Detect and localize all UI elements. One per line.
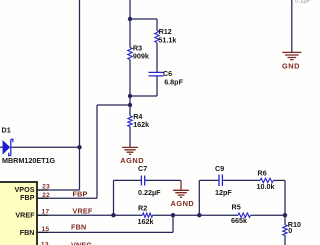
wire branch top horizontal (130, 18, 157, 20)
wire FBP vertical (96, 105, 98, 198)
wire R2 to FBN tap (153, 214, 239, 216)
svg-text:6.8pF: 6.8pF (164, 77, 183, 86)
svg-text:VREF: VREF (73, 206, 93, 215)
svg-text:51.1k: 51.1k (158, 35, 176, 44)
wire C7 left lead (114, 179, 142, 181)
svg-text:AGND: AGND (171, 199, 195, 208)
wire R6 to right corner (273, 179, 285, 181)
wire VREF pin to R2 (37, 214, 143, 216)
svg-text:VNEG: VNEG (71, 240, 92, 245)
svg-text:VREF: VREF (15, 211, 35, 220)
svg-text:10.0k: 10.0k (257, 182, 275, 191)
svg-text:0.22µF: 0.22µF (138, 188, 161, 197)
node junction C7 tap (111, 213, 115, 217)
wire D1 cathode to junction (11, 146, 79, 148)
wire C7 right lead to AGND (145, 179, 181, 181)
svg-text:FBP: FBP (20, 193, 35, 202)
resistor R4 (128, 116, 132, 127)
svg-text:162k: 162k (138, 217, 154, 226)
wire R4 to AGND (129, 126, 131, 146)
svg-text:23: 23 (42, 183, 50, 190)
node junction C9 tap (197, 213, 201, 217)
chip U? body (0, 182, 37, 245)
wire C9 riser (198, 180, 200, 215)
svg-text:FBN: FBN (71, 223, 86, 232)
wire VPOS vertical (79, 0, 81, 190)
resistor R3 (128, 48, 132, 60)
svg-text:C7: C7 (138, 164, 147, 173)
wire FBN pin to riser (37, 231, 173, 233)
svg-text:D1: D1 (2, 126, 11, 135)
wire R10 bottom lead (284, 235, 286, 245)
wire AGND2 stub (180, 180, 182, 190)
svg-text:0.1µF: 0.1µF (295, 0, 311, 5)
resistor R10 (283, 225, 287, 236)
wire FBN riser (172, 215, 174, 232)
svg-text:FBN: FBN (20, 228, 35, 237)
wire top feed vertical (129, 0, 131, 19)
pin 22 stub (37, 197, 48, 199)
wire R3 top segment (129, 19, 131, 48)
svg-text:665k: 665k (231, 216, 247, 225)
wire D1 anode stub (0, 146, 3, 148)
node junction at 130,105 (128, 103, 132, 107)
capacitor C7 plates (141, 176, 144, 186)
wire right vertical down (284, 180, 286, 215)
svg-text:FBP: FBP (73, 189, 88, 198)
svg-text:R2: R2 (138, 204, 147, 213)
wire C9 left lead (199, 179, 219, 181)
ground GND (282, 52, 301, 59)
wire R12 top segment (156, 19, 158, 31)
wire GND feed (291, 0, 293, 52)
wire C7 riser (113, 180, 115, 215)
svg-text:12pF: 12pF (215, 188, 232, 197)
svg-text:R5: R5 (232, 203, 241, 212)
wire FBP to pin 22 (37, 197, 97, 199)
svg-text:909k: 909k (133, 52, 149, 61)
capacitor C9 plates (219, 175, 222, 187)
wire R12-C6 segment (156, 43, 158, 72)
svg-text:R6: R6 (258, 169, 267, 178)
wire R10 top lead (284, 215, 286, 225)
svg-text:13: 13 (41, 242, 49, 245)
wire C9 to R6 (223, 179, 260, 181)
svg-text:C9: C9 (215, 164, 224, 173)
resistor R12 (155, 31, 159, 43)
wire C6 bottom segment (156, 76, 158, 96)
wire R3 bottom segment (129, 60, 131, 97)
svg-text:GND: GND (282, 61, 300, 70)
node junction at 130,19 (128, 17, 132, 21)
wire R4 top segment (129, 105, 131, 116)
wire branch bottom horizontal (130, 95, 157, 97)
node junction FBN tap (171, 213, 175, 217)
resistor R5 (238, 213, 251, 217)
capacitor C6 plates (149, 72, 164, 76)
svg-text:162k: 162k (133, 120, 149, 129)
pin 23 stub (37, 189, 48, 191)
resistor R2 (143, 213, 153, 217)
node junction at 130,96 (128, 94, 132, 98)
wire node A to node B (129, 96, 131, 105)
diode D1 (3, 139, 13, 155)
svg-text:0: 0 (288, 226, 292, 235)
node junction R10 tap (283, 213, 287, 217)
wire R5 to right node (251, 214, 286, 216)
svg-text:MBRM120ET1G: MBRM120ET1G (2, 156, 56, 165)
pin 15 stub (37, 231, 48, 233)
resistor R6 (260, 178, 273, 182)
ground AGND2 (173, 190, 189, 197)
wire VPOS to pin 23 (37, 189, 80, 191)
wire FBP horizontal upper (97, 104, 130, 106)
ground AGND1 (122, 147, 138, 154)
node junction D1/VPOS (77, 145, 81, 149)
pin 17 stub (37, 214, 48, 216)
